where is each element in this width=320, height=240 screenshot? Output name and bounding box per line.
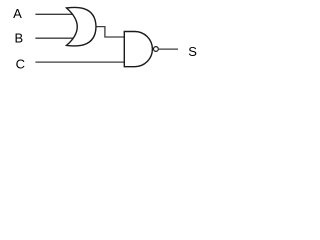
NAND gate U2 (AND body) [124,32,152,67]
NAND inverter bubble [154,47,159,52]
OR gate U1 [67,7,97,46]
wire B [35,37,73,39]
output wire S [159,48,178,50]
wire C [35,61,125,63]
svg-text:B: B [15,31,24,46]
svg-text:S: S [188,44,197,59]
wire A [35,13,73,15]
wire OR output to NAND input (step) [96,27,127,37]
svg-text:A: A [13,6,22,21]
svg-text:C: C [16,57,25,72]
